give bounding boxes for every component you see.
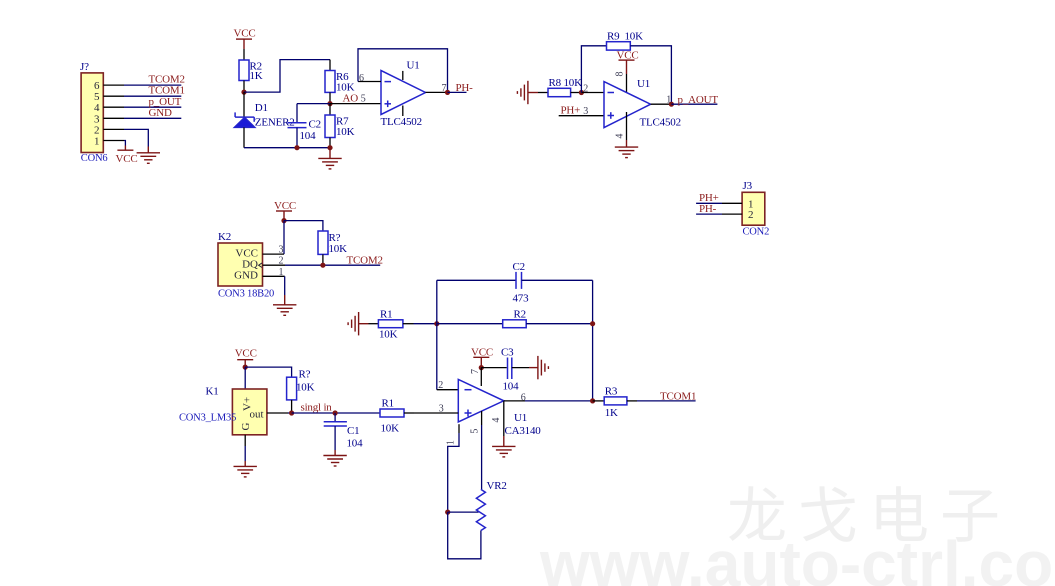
power port VCC above K1: [235, 347, 257, 367]
svg-text:AO: AO: [343, 92, 359, 104]
svg-text:U1: U1: [407, 60, 420, 72]
wire GND from J? pin3: [124, 117, 181, 119]
svg-text:GND: GND: [149, 107, 172, 119]
node junction VCC K1: [243, 365, 248, 370]
wire wiper to VR2: [448, 511, 479, 513]
svg-text:C3: C3: [501, 346, 514, 358]
svg-text:1: 1: [666, 95, 671, 106]
wire R6 top pin: [329, 60, 331, 71]
svg-text:R1: R1: [382, 397, 394, 409]
resistor R2 feedback: [437, 308, 593, 327]
svg-text:2: 2: [748, 209, 754, 221]
wire J3 pin2: [722, 213, 742, 215]
svg-text:VCC: VCC: [235, 347, 257, 359]
svg-text:R3: R3: [605, 386, 618, 398]
wire PH+ to U1b plus input: [559, 115, 604, 117]
svg-text:G: G: [240, 423, 252, 431]
svg-text:C2: C2: [513, 261, 525, 273]
node junction AO: [327, 101, 332, 106]
wire CA3140 output pin 6: [504, 400, 525, 402]
power port VCC below J? pin1: [116, 146, 138, 166]
wire R2 node to R6 top: [244, 60, 330, 93]
node junction C1 top: [333, 410, 338, 415]
svg-text:J?: J?: [80, 61, 89, 73]
wire feedback loop U1b left leg: [581, 46, 606, 93]
wire bottom rail D1/C2/R7: [244, 147, 330, 149]
wire pin7 node to C3: [481, 367, 507, 369]
svg-text:J3: J3: [743, 180, 753, 192]
svg-text:VR2: VR2: [487, 480, 507, 492]
svg-text:7: 7: [470, 369, 481, 374]
svg-text:TCOM1: TCOM1: [660, 391, 696, 403]
wire AO node to op-amp U1 plus input: [330, 103, 381, 105]
node junction R?b bottom: [289, 410, 294, 415]
wire ground to R1a: [359, 323, 369, 325]
svg-text:2: 2: [438, 380, 443, 391]
svg-text:K1: K1: [206, 386, 219, 398]
svg-text:GND: GND: [234, 269, 258, 281]
wire VCC to R2: [243, 49, 245, 60]
connector J? CON6: [80, 61, 124, 164]
svg-text:1: 1: [279, 267, 284, 278]
wire TCOM1 from J? pin5: [124, 95, 181, 97]
node junction CA3140 output: [590, 398, 595, 403]
resistor R1 10K lower: [380, 397, 414, 434]
wire K1 out pin: [267, 412, 288, 414]
resistor R3 1K: [604, 386, 637, 419]
svg-text:6: 6: [359, 73, 364, 84]
svg-text:U1: U1: [514, 412, 527, 424]
svg-text:TLC4502: TLC4502: [640, 116, 681, 128]
wire K2 pin3: [263, 253, 285, 255]
power port VCC on U1b pin 8: [617, 50, 639, 74]
resistor R2 1K: [239, 60, 263, 92]
node junction R7 bottom: [327, 145, 332, 150]
wire feedback loop U1 left: [358, 49, 448, 93]
wire PH- net: [448, 91, 467, 93]
svg-text:2: 2: [279, 256, 284, 267]
node junction VCC K2: [281, 218, 286, 223]
op-amp U1 TLC4502 left: [381, 60, 426, 129]
wire VCC node down to K1 top pin: [244, 367, 246, 389]
component K1 CON3_LM35: [179, 386, 267, 435]
svg-text:p_AOUT: p_AOUT: [678, 94, 719, 106]
wire U1b output pin 1: [651, 103, 672, 105]
svg-text:473: 473: [513, 292, 530, 304]
svg-text:PH-: PH-: [456, 82, 474, 94]
wire J? pin2 to ground: [124, 129, 148, 146]
capacitor C3 104: [501, 346, 519, 392]
svg-text:D1: D1: [255, 102, 268, 114]
wire TCOM2 from J? pin6: [124, 84, 181, 86]
wire to U1b minus input: [581, 92, 604, 94]
svg-text:1: 1: [446, 440, 457, 445]
ground symbol below CA3140: [492, 446, 515, 457]
wire C2 branch from AO wire: [297, 103, 330, 105]
svg-text:10K: 10K: [296, 382, 315, 394]
node junction inverting branch: [434, 321, 439, 326]
svg-text:R8: R8: [549, 77, 562, 89]
wire VCC node down to K2 pin3: [283, 221, 285, 255]
svg-text:10K: 10K: [379, 329, 398, 341]
ground symbol below J? pin2: [137, 153, 160, 164]
resistor R? 10K pullup K2: [318, 231, 347, 265]
wire stub dark red to ground: [147, 147, 149, 153]
component K2 CON3 18B20: [218, 231, 274, 299]
svg-text:CON3 18B20: CON3 18B20: [218, 288, 274, 299]
svg-text:1K: 1K: [250, 70, 263, 82]
node junction U1 output: [445, 90, 450, 95]
wire CA3140 pin 1 to wiper: [458, 424, 460, 433]
svg-text:PH+: PH+: [699, 192, 719, 204]
power port VCC above K2: [274, 200, 296, 221]
resistor R8 10K: [548, 77, 582, 97]
node junction C2 bottom: [294, 145, 299, 150]
svg-text:U1: U1: [637, 78, 650, 90]
wire C1 to ground: [334, 450, 336, 455]
svg-text:5: 5: [361, 93, 366, 104]
svg-text:VCC: VCC: [116, 153, 138, 165]
svg-text:4: 4: [615, 134, 626, 139]
node junction R? bottom: [320, 263, 325, 268]
svg-text:10K: 10K: [625, 30, 644, 42]
wire VCC to pin 8: [626, 74, 628, 92]
node junction VR2 wiper: [445, 509, 450, 514]
svg-text:R2: R2: [514, 308, 526, 320]
wire R1a to inverting node: [414, 323, 437, 325]
svg-text:VCC: VCC: [234, 28, 256, 40]
ground symbol right of C3: [538, 356, 549, 379]
ground symbol below K2: [273, 305, 296, 316]
wire U1 minus input pin 6: [358, 81, 381, 83]
svg-text:104: 104: [503, 380, 520, 392]
resistor R9 10K: [607, 30, 644, 50]
wire wiper node to VR2 bottom: [448, 512, 481, 559]
wire J? pin1 to VCC port: [124, 141, 125, 146]
ground symbol below U1b: [615, 147, 638, 158]
svg-text:10K: 10K: [564, 77, 583, 89]
resistor R1 10K upper: [378, 308, 413, 340]
svg-text:6: 6: [521, 392, 526, 403]
wire singl in run: [292, 412, 380, 414]
wire C3 to ground: [512, 367, 529, 369]
svg-text:R1: R1: [380, 308, 392, 320]
wire K1 bottom pin to ground: [244, 435, 246, 446]
svg-text:C2: C2: [309, 119, 321, 131]
wire U1b pin 4 to ground: [626, 112, 628, 140]
node junction U1b minus input: [579, 90, 584, 95]
wire p_AOUT net: [671, 103, 717, 105]
svg-text:CA3140: CA3140: [505, 425, 542, 437]
svg-text:TLC4502: TLC4502: [381, 116, 422, 128]
svg-text:out: out: [250, 409, 264, 421]
wire CA3140 pin 5 to VR2 top: [481, 411, 483, 425]
svg-text:10K: 10K: [329, 243, 348, 255]
diode D1 ZENER2: [234, 92, 294, 148]
svg-text:104: 104: [300, 130, 317, 142]
wire K2 pin1 to ground: [263, 275, 285, 277]
power port VCC on CA3140 pin 7: [471, 346, 493, 367]
svg-text:R9: R9: [607, 30, 620, 42]
svg-text:TCOM2: TCOM2: [347, 255, 383, 267]
svg-text:PH-: PH-: [699, 203, 717, 215]
wire J3 pin1: [722, 202, 742, 204]
wire ground to R8: [528, 92, 538, 94]
ground symbol left of R8: [517, 81, 528, 104]
power port VCC top of R2: [234, 28, 256, 49]
ground symbol below R7: [318, 148, 341, 169]
ground symbol left of R1a: [348, 312, 359, 335]
svg-text:1K: 1K: [605, 407, 618, 419]
potentiometer VR2: [476, 480, 506, 531]
ground symbol below K1: [234, 466, 257, 477]
resistor R6 10K: [325, 71, 355, 104]
wire VCC node to R?b top: [245, 367, 291, 377]
svg-text:PH+: PH+: [561, 105, 581, 117]
wire VCC node to R? top: [284, 221, 323, 231]
wire U1 output pin 7: [426, 91, 448, 93]
svg-text:4: 4: [491, 418, 502, 423]
capacitor C2 473: [513, 261, 530, 304]
svg-text:singl in: singl in: [301, 402, 333, 414]
node junction R2/D1: [241, 90, 246, 95]
svg-text:K2: K2: [218, 231, 231, 243]
svg-text:R?: R?: [299, 369, 311, 381]
resistor R7 10K: [325, 104, 355, 148]
capacitor C2 104: [288, 104, 321, 148]
svg-text:5: 5: [469, 429, 480, 434]
svg-text:VCC: VCC: [235, 247, 258, 259]
wire vertical feedback right: [592, 280, 594, 401]
wire pin 7: [480, 368, 482, 386]
wire feedback loop U1b right leg: [630, 46, 671, 104]
op-amp U1 TLC4502 right: [604, 78, 681, 128]
wire p_OUT from J? pin4: [124, 106, 181, 108]
connector J3 CON2: [742, 180, 769, 238]
op-amp U1 CA3140: [458, 379, 541, 437]
wire inverting node to pin 2: [437, 389, 459, 391]
svg-text:CON3_LM35: CON3_LM35: [179, 412, 236, 423]
wire vertical inverting node: [436, 280, 438, 389]
svg-text:C1: C1: [347, 425, 359, 437]
wire K2 pin2 TCOM2: [263, 264, 286, 266]
svg-text:8: 8: [615, 72, 626, 77]
node junction feedback right: [590, 321, 595, 326]
node junction U1b output: [669, 102, 674, 107]
svg-text:1: 1: [94, 136, 100, 148]
wire feedback top right leg: [522, 279, 593, 281]
wire R1b to pin 3: [414, 412, 458, 414]
wire feedback top left leg: [437, 279, 516, 281]
capacitor C1 104: [324, 413, 363, 450]
svg-text:3: 3: [279, 245, 284, 256]
wire TCOM1 net: [637, 400, 696, 402]
svg-text:104: 104: [347, 437, 364, 449]
wire CA3140 pin 4 to ground: [503, 401, 505, 436]
svg-text:CON6: CON6: [81, 153, 108, 164]
svg-text:10K: 10K: [381, 423, 400, 435]
svg-text:VCC: VCC: [274, 200, 296, 212]
resistor R? 10K pullup K1: [287, 369, 315, 413]
svg-text:10K: 10K: [336, 126, 355, 138]
svg-text:3: 3: [439, 404, 444, 415]
svg-text:www.auto-ctrl.co: www.auto-ctrl.co: [539, 528, 1053, 586]
node junction pin 7: [479, 365, 484, 370]
svg-text:CON2: CON2: [743, 226, 770, 237]
ground symbol below C1: [323, 456, 346, 467]
wire output node to R3: [593, 400, 605, 402]
